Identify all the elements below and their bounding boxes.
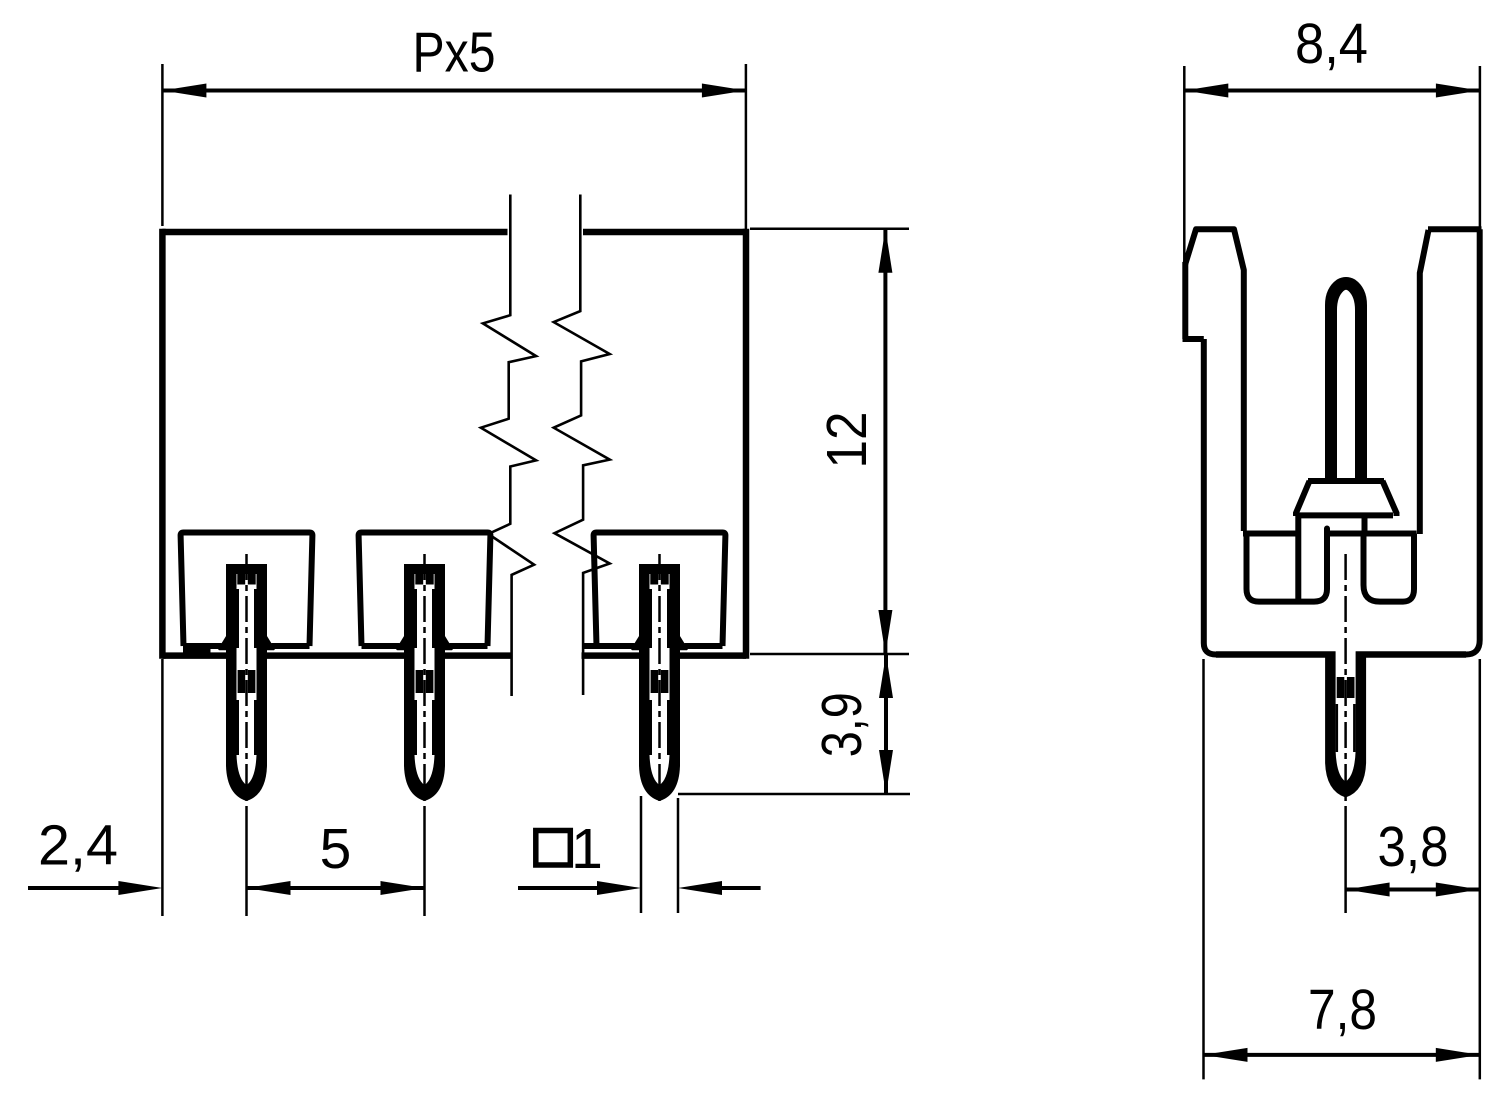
chamber 3 chamber recess (trapezoid) — [594, 533, 726, 647]
side view right pocket top line — [1327, 531, 1417, 537]
side view contact inner wall right — [1362, 515, 1368, 532]
dimension 3,9 extension line bottom — [678, 793, 910, 796]
side view mating pin inner slot — [1337, 290, 1355, 483]
dimension 7,8 arrow right — [1436, 1048, 1480, 1062]
side view body bottom edge segments — [1216, 651, 1336, 658]
side view latch claw top — [1185, 229, 1244, 531]
side view mating pin — [1325, 277, 1367, 483]
dimension 5 line — [247, 886, 425, 890]
svg-text:7,8: 7,8 — [1308, 978, 1377, 1042]
side view contact collar right flank — [1383, 481, 1397, 516]
break line left — [481, 195, 536, 697]
svg-text:8,4: 8,4 — [1295, 12, 1368, 76]
pin 2 centerline extension below tip — [423, 806, 426, 916]
break line right — [554, 195, 610, 696]
side view left pocket outline with contact tail — [1247, 529, 1328, 602]
pin 2 tip detail bars (upper) — [415, 574, 423, 585]
dimension 3,8 arrow right — [1436, 883, 1480, 897]
dimension 8,4 extension line left — [1183, 66, 1186, 262]
side view solder pin inner slot — [1336, 640, 1356, 782]
side view solder pin joint bars — [1337, 677, 1345, 698]
dimension Px5 arrow left — [162, 84, 206, 98]
side view pin centerline — [1344, 554, 1347, 806]
front view housing right edge — [743, 229, 750, 659]
dimension 7,8 line — [1204, 1053, 1480, 1057]
dimension 8,4 line — [1184, 89, 1480, 93]
chamber 3 funnel chamfer — [633, 623, 649, 649]
dimension 3,9 arrow bottom — [879, 750, 893, 794]
pin 2 inner slot — [415, 574, 435, 785]
side view right pocket outline — [1364, 534, 1415, 602]
dimension 2,4 extension line (housing left edge) — [161, 659, 164, 916]
chamber 1 chamber recess (trapezoid) — [181, 533, 313, 647]
dimension square-1 leader right — [720, 886, 761, 890]
side view body right edge with rounded foot — [1466, 229, 1480, 654]
dimension 12 extension line top — [750, 227, 909, 230]
dimension 8,4 extension line right — [1479, 66, 1482, 230]
svg-text:Px5: Px5 — [413, 21, 496, 85]
dimension 5 arrow left — [247, 881, 291, 895]
dimension square-1 extension line right — [677, 798, 680, 913]
dimension square-1 square symbol — [536, 831, 571, 866]
pin 1 body (thick outline with pointed tip) — [226, 564, 267, 801]
chamber 1 seat line — [184, 643, 222, 649]
dimension 3,9 arrow top — [879, 654, 893, 698]
dimension 7,8 extension line right — [1479, 659, 1482, 1079]
pin 2 body (thick outline with pointed tip) — [404, 564, 445, 801]
dimension 3,8 arrow left — [1346, 883, 1390, 897]
dimension 3,9 line — [884, 654, 888, 794]
dimension 2,4 leader line — [28, 886, 120, 890]
front view housing top edge (right segment) — [583, 229, 746, 236]
dimension 8,4 arrow left — [1184, 84, 1228, 98]
pin 1 tip detail bars (upper) — [237, 574, 245, 585]
pin 3 inner contour lines — [650, 589, 653, 648]
chamber 1 seat fill detail — [183, 646, 211, 657]
side view solder pin — [1325, 652, 1366, 798]
side view left pocket top line — [1243, 531, 1299, 537]
dimension 3,8 line — [1346, 888, 1480, 892]
dimension square-1 leader left — [518, 886, 599, 890]
svg-text:12: 12 — [815, 412, 879, 469]
side view pin centerline extension — [1344, 806, 1347, 913]
pin 2 centerline — [423, 554, 426, 806]
dimension 12 arrow bottom — [878, 610, 892, 654]
dimension Px5 extension line left — [161, 64, 164, 226]
pin 2 inner contour lines — [415, 589, 418, 648]
front view housing top edge (left segment) — [162, 229, 507, 236]
svg-text:3,9: 3,9 — [810, 692, 874, 757]
pin 1 inner contour lines — [237, 589, 240, 648]
pin 3 tip detail bars (upper) — [650, 574, 658, 585]
pin 1 joint detail bars (below board line) — [238, 670, 246, 693]
dimension Px5 extension line right — [745, 64, 748, 230]
pin 2 joint detail bars (below board line) — [416, 670, 424, 693]
dimension 7,8 arrow left — [1204, 1048, 1248, 1062]
side view solder pin inner contour lines — [1336, 704, 1339, 752]
chamber 3 seat line — [584, 643, 635, 649]
svg-text:5: 5 — [320, 817, 352, 881]
pin 1 inner slot — [237, 574, 257, 785]
side view latch claw step — [1183, 336, 1204, 342]
front view housing bottom edge segments — [162, 652, 236, 659]
dimension 5 arrow right — [381, 881, 425, 895]
dimension 12 arrow top — [878, 229, 892, 273]
pin 1 centerline extension below tip — [245, 806, 248, 916]
svg-text:2,4: 2,4 — [38, 814, 118, 878]
chamber 2 chamber recess (trapezoid) — [359, 533, 491, 647]
dimension 8,4 arrow right — [1436, 84, 1480, 98]
side view contact collar bottom — [1298, 512, 1393, 518]
svg-text:1: 1 — [571, 817, 603, 881]
dimension Px5 arrow right — [702, 84, 746, 98]
dimension 12 extension line bottom — [750, 653, 909, 656]
dimension 7,8 extension line left — [1202, 659, 1205, 1079]
dimension square-1 extension line left — [640, 796, 643, 913]
side view right wall inner edge — [1420, 230, 1429, 534]
pin 3 joint detail bars (below board line) — [651, 670, 659, 693]
pin 3 inner slot — [650, 574, 670, 785]
chamber 1 funnel chamfer — [220, 623, 236, 649]
chamber 2 seat line — [362, 643, 400, 649]
side view contact collar top — [1308, 478, 1384, 484]
pin 3 centerline — [658, 554, 661, 806]
side view contact inner wall left — [1295, 515, 1301, 600]
dimension square-1 arrow left — [597, 881, 641, 895]
side view right wall top edge — [1428, 226, 1482, 232]
front view housing left edge — [159, 229, 166, 659]
chamber 2 funnel chamfer — [398, 623, 414, 649]
side view contact collar left flank — [1296, 481, 1310, 516]
side view body left edge with rounded foot — [1204, 339, 1216, 655]
dimension 12 line — [883, 229, 887, 654]
pin 1 centerline — [245, 554, 248, 806]
pin 3 body (thick outline with pointed tip) — [639, 564, 680, 801]
svg-text:3,8: 3,8 — [1378, 815, 1449, 879]
side view latch claw left edge — [1182, 262, 1188, 339]
dimension 2,4 arrow — [118, 881, 162, 895]
dimension Px5 line — [162, 89, 746, 93]
dimension square-1 arrow right — [678, 881, 722, 895]
